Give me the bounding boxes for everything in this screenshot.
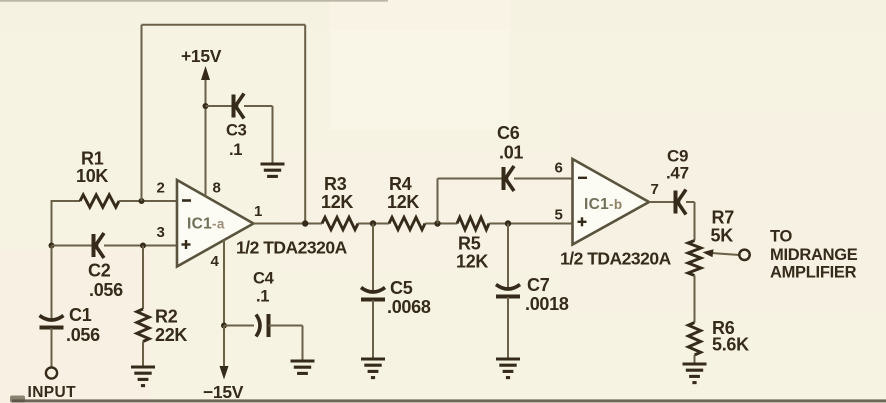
- svg-text:.01: .01: [499, 143, 523, 163]
- ground: [361, 359, 385, 378]
- wire: [223, 326, 225, 367]
- wire: [514, 178, 573, 180]
- resistor R5: [456, 217, 489, 271]
- pin 1 label: [254, 203, 262, 220]
- node input-C2: [49, 243, 55, 249]
- wire: [206, 105, 233, 107]
- wire: [302, 326, 304, 362]
- svg-text:−15V: −15V: [203, 382, 244, 402]
- capacitor C1: [40, 305, 101, 345]
- svg-text:+15V: +15V: [181, 46, 222, 66]
- wire: [686, 201, 695, 203]
- svg-text:C2: C2: [88, 261, 111, 281]
- wire: [51, 200, 53, 247]
- node feedback-left: [139, 198, 145, 204]
- ground: [261, 164, 285, 176]
- capacitor C2: [88, 233, 123, 300]
- resistor R2: [137, 307, 188, 346]
- node C3-tap: [203, 103, 209, 109]
- svg-text:12K: 12K: [321, 192, 353, 212]
- wiper arrow: [703, 249, 740, 257]
- wire: [489, 223, 573, 225]
- wire: [694, 276, 696, 323]
- svg-text:5: 5: [555, 207, 563, 224]
- resistor R6: [688, 318, 749, 355]
- svg-text:R4: R4: [389, 174, 412, 194]
- power +15V: [181, 46, 222, 80]
- wire: [649, 201, 674, 203]
- wire feedback-right-vertical: [304, 25, 306, 224]
- wire: [272, 106, 274, 164]
- capacitor C4: [253, 270, 275, 338]
- wire: [142, 246, 144, 310]
- node output-1: [302, 220, 308, 226]
- svg-text:R2: R2: [155, 307, 178, 327]
- svg-text:6: 6: [555, 160, 563, 177]
- svg-text:IC1-a: IC1-a: [187, 216, 225, 233]
- svg-text:.1: .1: [229, 141, 242, 159]
- svg-text:22K: 22K: [155, 325, 187, 345]
- ground: [291, 361, 315, 373]
- op-amp U1 IC1-a: [177, 180, 254, 267]
- svg-text:2: 2: [157, 180, 165, 197]
- svg-text:12K: 12K: [456, 252, 488, 272]
- node C7-tap: [505, 220, 511, 226]
- wire: [438, 178, 503, 180]
- wire: [269, 325, 303, 327]
- svg-text:.1: .1: [256, 288, 269, 306]
- wire: [104, 245, 177, 247]
- svg-text:R5: R5: [458, 234, 481, 254]
- svg-text:7: 7: [651, 181, 659, 198]
- svg-text:TO: TO: [770, 228, 792, 246]
- wire: [437, 179, 439, 224]
- resistor R3: [321, 174, 358, 230]
- label 1/2 TDA2320A: [236, 238, 348, 258]
- label TO MIDRANGE AMPLIFIER: [770, 228, 858, 282]
- svg-text:C5: C5: [390, 278, 413, 298]
- svg-text:MIDRANGE: MIDRANGE: [770, 246, 858, 264]
- top scan edge: [0, 0, 388, 2]
- wire feedback-left-vertical: [141, 25, 143, 201]
- svg-text:C6: C6: [497, 123, 520, 143]
- wire: [358, 223, 389, 225]
- svg-text:.47: .47: [666, 164, 689, 183]
- svg-text:8: 8: [213, 180, 221, 197]
- svg-text:1/2 TDA2320A: 1/2 TDA2320A: [560, 249, 672, 269]
- svg-text:1: 1: [254, 203, 262, 220]
- svg-text:R7: R7: [712, 208, 735, 228]
- svg-text:.0018: .0018: [525, 294, 569, 314]
- wire: [205, 78, 207, 197]
- bottom scan edge: [12, 399, 886, 402]
- resistor R4: [387, 174, 425, 230]
- wire: [119, 200, 177, 202]
- svg-text:IC1-b: IC1-b: [584, 196, 622, 213]
- node C6-tap: [434, 220, 440, 226]
- wire: [254, 223, 323, 225]
- svg-text:C3: C3: [226, 122, 247, 140]
- svg-text:3: 3: [157, 224, 165, 241]
- wire: [51, 328, 53, 367]
- pin 6 label: [555, 160, 563, 177]
- terminal output: [739, 250, 749, 260]
- pin 8 label: [213, 180, 221, 197]
- svg-text:C4: C4: [253, 270, 275, 288]
- terminal INPUT: [28, 367, 77, 401]
- pin 2 label: [157, 180, 165, 197]
- wire: [142, 342, 144, 368]
- pin 4 label: [211, 253, 220, 270]
- wire: [52, 200, 81, 202]
- svg-text:10K: 10K: [76, 166, 108, 186]
- ground: [683, 364, 707, 383]
- wire feedback-top: [142, 24, 306, 26]
- wire: [372, 300, 374, 359]
- node R2-top: [140, 243, 146, 249]
- power -15V: [203, 366, 244, 402]
- svg-text:AMPLIFIER: AMPLIFIER: [770, 264, 857, 282]
- wire: [52, 245, 94, 247]
- capacitor C5: [361, 278, 431, 317]
- wire: [694, 202, 696, 241]
- svg-text:4: 4: [211, 253, 220, 270]
- label 1/2 TDA2320A: [560, 249, 672, 269]
- svg-text:5K: 5K: [711, 226, 734, 246]
- svg-text:1/2 TDA2320A: 1/2 TDA2320A: [236, 238, 348, 258]
- pin 3 label: [157, 224, 165, 241]
- svg-text:.056: .056: [66, 325, 100, 345]
- ground: [496, 359, 520, 378]
- wire: [223, 240, 225, 326]
- potentiometer R7: [688, 208, 734, 276]
- node C4-tap: [221, 323, 227, 329]
- svg-text:R3: R3: [324, 174, 347, 194]
- wire: [425, 223, 457, 225]
- capacitor C7: [496, 275, 569, 314]
- wire: [507, 297, 509, 359]
- wire: [244, 105, 273, 107]
- wire: [372, 224, 374, 291]
- wire: [507, 224, 509, 288]
- node C5-tap: [370, 220, 376, 226]
- capacitor C3: [226, 94, 247, 160]
- wire: [51, 246, 53, 319]
- svg-text:.056: .056: [89, 280, 123, 300]
- svg-text:C1: C1: [69, 305, 92, 325]
- capacitor C6: [497, 123, 523, 191]
- resistor R1: [76, 149, 119, 208]
- svg-text:.0068: .0068: [387, 297, 431, 317]
- wire: [224, 325, 254, 327]
- pin 7 label: [651, 181, 659, 198]
- svg-text:5.6K: 5.6K: [712, 335, 749, 355]
- svg-text:12K: 12K: [387, 192, 419, 212]
- capacitor C9: [666, 147, 689, 215]
- wire: [694, 355, 696, 364]
- op-amp U2 IC1-b: [573, 159, 650, 245]
- svg-text:C7: C7: [527, 275, 550, 295]
- ground: [131, 367, 155, 386]
- svg-text:INPUT: INPUT: [28, 384, 77, 401]
- pin 5 label: [555, 207, 563, 224]
